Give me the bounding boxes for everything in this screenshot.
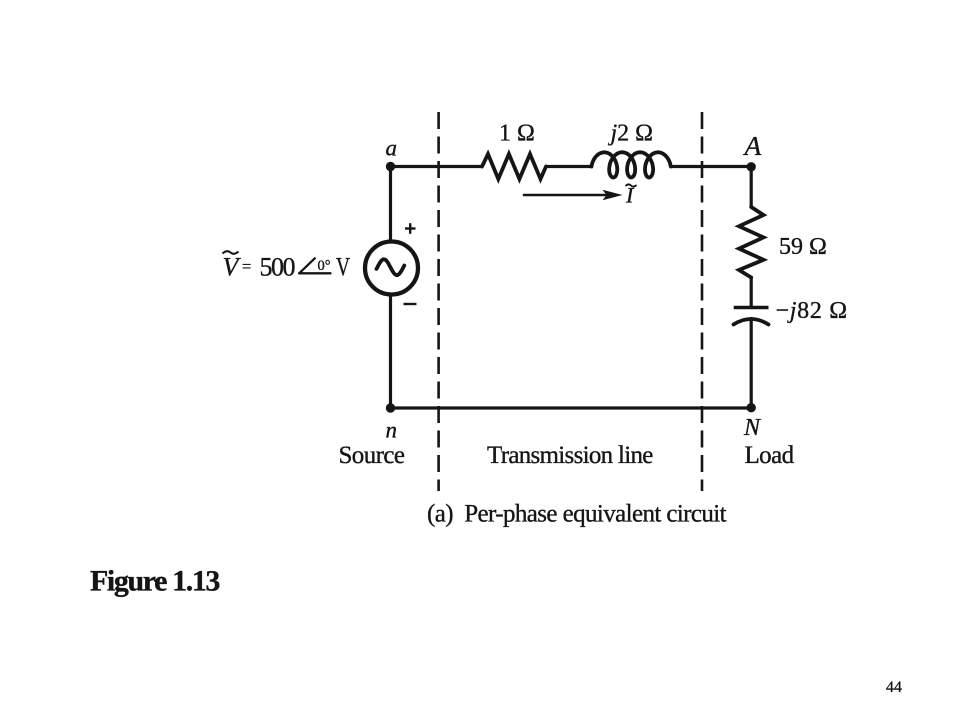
resistor 1 ohm (zigzag) xyxy=(482,154,546,179)
capacitor -j82 ohm : curved bottom plate xyxy=(734,319,769,325)
node A junction dot xyxy=(747,162,756,171)
svg-text:A: A xyxy=(743,130,762,161)
wire: top-left from node a to resistor R xyxy=(391,165,483,168)
svg-text:V: V xyxy=(336,253,350,282)
node N junction dot xyxy=(747,403,756,412)
AC voltage source circle xyxy=(365,242,418,295)
svg-text:Transmission line: Transmission line xyxy=(487,442,653,469)
wire: capacitor to node N xyxy=(750,319,753,409)
minus polarity mark xyxy=(404,303,417,305)
dashed boundary line right (transmission line | load) xyxy=(701,112,704,491)
wire: source bottom down to node n xyxy=(389,295,392,409)
svg-text:0°: 0° xyxy=(318,258,331,274)
svg-text:Load: Load xyxy=(745,442,795,469)
wire: load resistor to capacitor xyxy=(750,278,753,307)
svg-text:N: N xyxy=(743,415,762,441)
inductor j2 ohm (coil) xyxy=(592,152,671,177)
svg-text:V: V xyxy=(223,253,242,282)
resistor 59 ohm (vertical zigzag) xyxy=(739,207,764,278)
current arrow line xyxy=(524,194,608,197)
svg-text:n: n xyxy=(386,418,398,443)
dashed boundary line left (source | transmission line) xyxy=(437,112,440,491)
angle symbol xyxy=(299,258,330,273)
svg-text:j2 Ω: j2 Ω xyxy=(608,121,654,147)
wire: node A down to load resistor xyxy=(750,167,753,208)
wire: between resistor and inductor xyxy=(546,165,592,168)
wire: left rail, node a down to source top xyxy=(389,167,392,242)
svg-text:Figure 1.13: Figure 1.13 xyxy=(90,565,219,598)
svg-text:(a) Per-phase equivalent circ: (a) Per-phase equivalent circuit xyxy=(427,501,727,528)
sine symbol inside source xyxy=(377,259,405,275)
wire: inductor to node A xyxy=(671,165,751,168)
svg-text:1 Ω: 1 Ω xyxy=(499,121,535,147)
capacitor -j82 ohm : top plate xyxy=(734,306,769,310)
svg-text:Source: Source xyxy=(339,442,405,469)
current arrow head xyxy=(603,190,623,200)
svg-text:−j82 Ω: −j82 Ω xyxy=(776,298,848,324)
svg-text:500: 500 xyxy=(260,253,296,282)
node n junction dot xyxy=(386,403,395,412)
svg-text:a: a xyxy=(386,136,398,161)
svg-text:=: = xyxy=(242,257,251,276)
wire: bottom rail from node n to node N xyxy=(391,406,752,409)
plus polarity mark xyxy=(405,223,416,234)
svg-text:44: 44 xyxy=(886,679,902,696)
node a junction dot xyxy=(386,162,395,171)
svg-text:59 Ω: 59 Ω xyxy=(779,234,827,260)
